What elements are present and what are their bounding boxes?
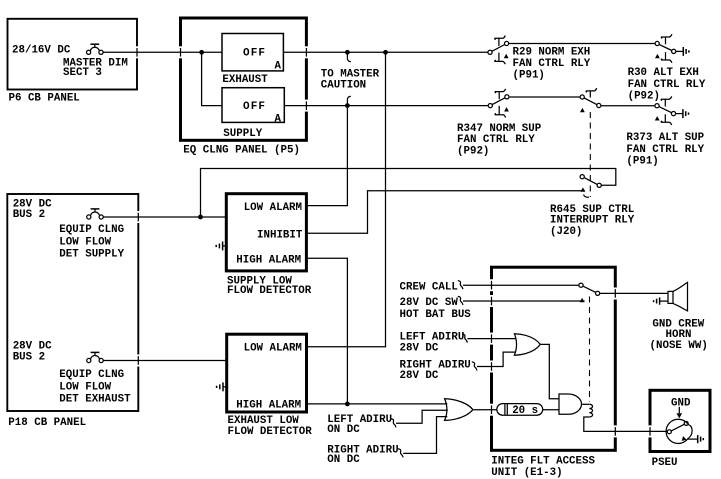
svg-text:FLOW DETECTOR: FLOW DETECTOR — [227, 285, 312, 297]
svg-text:OFF: OFF — [243, 48, 266, 60]
svg-text:TO MASTER: TO MASTER — [321, 68, 380, 80]
svg-text:EQUIP CLNG: EQUIP CLNG — [59, 369, 124, 381]
svg-text:DET SUPPLY: DET SUPPLY — [59, 249, 124, 261]
ground (R373) — [676, 109, 689, 118]
wire: LEFT ADIRU 28V DC to OR gate — [467, 338, 515, 340]
mechanical linkage horn relay (dashed) — [589, 297, 591, 403]
relay contact R645 supply interrupt — [580, 88, 601, 112]
svg-text:HOT BAT BUS: HOT BAT BUS — [400, 309, 472, 321]
svg-text:OFF: OFF — [243, 101, 266, 113]
wire: R29 output to R30 — [509, 43, 656, 45]
wire: coil to PSEU input — [584, 417, 668, 431]
svg-text:INTERRUPT RLY: INTERRUPT RLY — [550, 215, 635, 227]
svg-text:28V DC SW: 28V DC SW — [400, 297, 459, 309]
svg-text:R29 NORM EXH: R29 NORM EXH — [513, 46, 591, 58]
relay contact R373 — [655, 96, 676, 125]
wire: exhaust rail tap down to exhaust LOW ALARM — [307, 52, 386, 347]
supply low flow detector box — [226, 194, 306, 271]
mechanical linkage R645 (dashed) — [589, 112, 591, 197]
wire: R347 output to R645 interrupt contact — [510, 96, 581, 98]
label curl LEFT ADIRU ON DC — [391, 419, 396, 428]
label curl LEFT ADIRU 28V — [462, 334, 467, 343]
P6 CB PANEL box — [8, 19, 138, 90]
svg-text:FAN CTRL RLY: FAN CTRL RLY — [513, 58, 591, 70]
svg-text:FAN CTRL RLY: FAN CTRL RLY — [457, 134, 535, 146]
wire: exhaust OFF output rail to R29 — [283, 51, 488, 53]
wire: exhaust HIGH ALARM line to OR gate — [307, 403, 448, 405]
ground (R30) — [676, 47, 689, 56]
exhaust low flow detector box — [227, 334, 307, 412]
wire: CREW CALL line to horn cutoff switch — [463, 284, 579, 286]
OR gate (ADIRU 28V DC) — [514, 334, 540, 356]
node: exhaust rail / low alarm tap — [383, 50, 388, 55]
P18 CB PANEL box — [7, 194, 138, 411]
svg-text:DET EXHAUST: DET EXHAUST — [59, 394, 131, 406]
wire: interrupt contact output to R373 — [601, 105, 655, 107]
PSEU rotary switch — [666, 407, 694, 444]
PSEU box — [650, 390, 710, 451]
wire: P18 upper breaker to supply detector — [103, 216, 227, 218]
circuit breaker EQUIP CLNG LOW FLOW DET EXHAUST — [87, 352, 104, 362]
svg-text:FAN CTRL RLY: FAN CTRL RLY — [626, 144, 704, 156]
horn (GND CREW HORN) — [668, 282, 688, 311]
wire: P18 lower breaker to exhaust detector — [103, 360, 227, 362]
wire: LEFT ADIRU ON DC to OR gate — [396, 410, 448, 423]
ground (PSEU) — [698, 435, 704, 443]
label curl 28V DC SW — [458, 296, 463, 305]
svg-text:P18 CB PANEL: P18 CB PANEL — [8, 417, 86, 429]
AND gate — [559, 394, 582, 414]
relay coil at AND output — [589, 404, 592, 417]
svg-text:UNIT (E1-3): UNIT (E1-3) — [491, 467, 562, 479]
EQ CLNG PANEL (P5) box — [181, 18, 307, 140]
svg-text:BUS 2: BUS 2 — [13, 351, 45, 363]
svg-text:LOW FLOW: LOW FLOW — [59, 236, 111, 248]
wire: horn ground lead — [660, 300, 668, 302]
wire: supply HIGH ALARM down to common high-alarm line — [306, 258, 347, 404]
switch EXHAUST OFF — [222, 34, 283, 73]
wire: EQ panel internal junction down to supply OFF switch — [202, 52, 222, 105]
border crossing ticks — [137, 48, 650, 436]
wire: PSEU ground lead — [688, 438, 698, 440]
svg-text:R30 ALT EXH: R30 ALT EXH — [628, 67, 699, 79]
svg-text:INHIBIT: INHIBIT — [257, 229, 303, 241]
svg-text:A: A — [275, 114, 282, 126]
relay contact R645 (coil circuit) — [580, 175, 601, 198]
svg-text:(NOSE WW): (NOSE WW) — [650, 340, 708, 352]
timer 20 s — [497, 404, 543, 417]
svg-text:28V DC: 28V DC — [400, 370, 439, 382]
ground (supply detector) — [216, 242, 226, 251]
svg-text:ON DC: ON DC — [327, 424, 360, 436]
wire: OR gate output to AND gate — [540, 344, 559, 398]
svg-text:ON DC: ON DC — [327, 454, 360, 466]
svg-text:PSEU: PSEU — [652, 457, 678, 469]
node: supply rail junction — [345, 103, 350, 108]
ground (horn) — [654, 297, 660, 304]
ground (exhaust detector) — [217, 382, 227, 391]
svg-text:LOW ALARM: LOW ALARM — [244, 202, 302, 214]
wire: OR gate output to 20s timer — [473, 409, 497, 411]
integ flt access unit box — [492, 267, 616, 450]
svg-text:CAUTION: CAUTION — [321, 80, 366, 92]
wire: supply breaker tap to R645 contact feed — [201, 169, 616, 218]
svg-text:(P91): (P91) — [626, 156, 658, 168]
relay contact R29 — [488, 36, 509, 65]
svg-text:GND: GND — [671, 397, 691, 409]
border gaps (white patches where wires pass through panel borders) — [134, 46, 653, 437]
wire: 28V DC SW HOT BAT BUS line — [463, 300, 585, 302]
wire: INHIBIT output to R645 coil — [306, 191, 584, 233]
wire: to-master-caution stub (exhaust) — [346, 52, 348, 59]
svg-text:SECT 3: SECT 3 — [63, 67, 102, 79]
svg-text:LOW FLOW: LOW FLOW — [59, 381, 111, 393]
svg-text:CREW CALL: CREW CALL — [400, 281, 458, 293]
svg-text:INTEG FLT ACCESS: INTEG FLT ACCESS — [491, 455, 595, 467]
svg-text:(J20): (J20) — [550, 226, 582, 238]
svg-text:(P91): (P91) — [513, 70, 545, 82]
node: supply breaker tap — [198, 215, 203, 220]
svg-text:(P92): (P92) — [457, 146, 489, 158]
svg-text:EQUIP CLNG: EQUIP CLNG — [59, 224, 124, 236]
OR gate (ADIRU ON DC / high alarm) — [445, 399, 473, 421]
svg-text:R373 ALT SUP: R373 ALT SUP — [626, 132, 704, 144]
wire: RIGHT ADIRU 28V DC to OR gate — [477, 352, 515, 366]
circuit breaker EQUIP CLNG LOW FLOW DET SUPPLY — [87, 209, 104, 219]
wire: horn cutoff switch output to horn — [600, 292, 668, 294]
node: exhaust rail / master caution stub — [345, 50, 350, 55]
relay contact R30 — [655, 34, 676, 63]
wire: to-master-caution stub (supply) — [346, 99, 348, 105]
svg-text:LOW ALARM: LOW ALARM — [244, 343, 302, 355]
svg-text:HIGH ALARM: HIGH ALARM — [236, 400, 301, 412]
wire: supply OFF output rail to R347 — [284, 105, 488, 107]
label curl RIGHT ADIRU 28V — [472, 362, 477, 371]
svg-text:FAN CTRL RLY: FAN CTRL RLY — [628, 79, 706, 91]
relay contact R347 — [488, 89, 509, 118]
circuit breaker MASTER DIM SECT 3 — [87, 44, 104, 54]
svg-text:28/16V DC: 28/16V DC — [12, 45, 71, 57]
label curl CREW CALL — [458, 281, 463, 290]
svg-text:A: A — [275, 60, 282, 72]
svg-text:FLOW DETECTOR: FLOW DETECTOR — [228, 426, 313, 438]
horn cutoff switch — [579, 283, 600, 302]
node: high alarm common — [345, 402, 350, 407]
svg-text:EXHAUST: EXHAUST — [222, 74, 268, 86]
wire: P6 breaker output to exhaust OFF switch — [103, 51, 222, 53]
label curl RIGHT ADIRU ON DC — [398, 449, 403, 458]
switch SUPPLY OFF — [222, 88, 284, 126]
svg-text:SUPPLY: SUPPLY — [223, 128, 262, 140]
svg-text:BUS 2: BUS 2 — [13, 209, 45, 221]
svg-text:EQ CLNG PANEL (P5): EQ CLNG PANEL (P5) — [183, 144, 300, 156]
wire: AND gate output to relay coil — [582, 403, 590, 405]
svg-text:HIGH ALARM: HIGH ALARM — [236, 255, 301, 267]
svg-text:20 s: 20 s — [512, 405, 538, 417]
wire: supply rail tap down to LOW ALARM — [306, 106, 347, 206]
svg-text:P6 CB PANEL: P6 CB PANEL — [9, 93, 80, 105]
wire: 20s timer output to AND gate — [543, 409, 559, 411]
node: EQ panel feed junction — [199, 50, 204, 55]
wire: RIGHT ADIRU ON DC to OR gate — [403, 417, 447, 454]
svg-text:(P92): (P92) — [628, 91, 660, 103]
svg-text:28V DC: 28V DC — [400, 342, 439, 354]
